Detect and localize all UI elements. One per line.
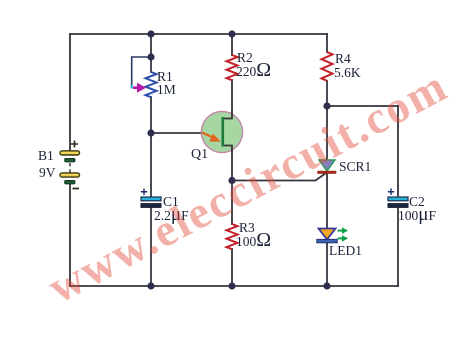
Q1 base2 lead [223,111,232,119]
SCR1 triangle [319,160,335,171]
wire left rail upper (battery +) [69,34,71,151]
svg-text:9V: 9V [39,165,56,180]
node bottom rail / C1 [147,282,154,289]
battery short plate 1 [65,159,75,162]
node R1 wiper tie [147,53,154,60]
C2 top plate [388,197,408,201]
battery long plate 2 [60,173,80,177]
resistor R1 (1M potentiometer body) [146,72,157,97]
wire LED cathode to bottom rail [326,243,328,287]
wire R4 to SCR anode [326,81,328,160]
SCR1 thyristor [317,160,336,174]
capacitor C2 100uF [388,189,408,208]
svg-text:R2: R2 [237,50,253,65]
node R1 / C1 / emitter [147,129,154,136]
LED1 triangle [319,229,336,240]
node bottom rail / R3 [228,282,235,289]
wire R1 column upper [150,34,152,72]
LED1 light arrow 1 [338,230,344,232]
svg-text:B1: B1 [38,148,54,163]
C2 plus sign [388,189,394,195]
wire R3 to bottom rail [231,249,233,286]
Q1 base1 lead [223,146,232,153]
node top rail / R1 [147,30,154,37]
LED1 [317,227,348,242]
resistor R2 220ohm [227,55,238,80]
wire Q1 base1 to gate node [231,146,233,181]
wire left rail lower (battery -) [69,184,71,286]
svg-text:www.eleccircuit.com: www.eleccircuit.com [40,60,454,313]
node top rail / R2 [228,30,235,37]
C2 bottom plate [388,204,408,208]
wire right rail to C2 [397,106,399,197]
capacitor C1 2.2uF [141,189,161,208]
C1 plus sign [141,189,147,195]
svg-text:1M: 1M [157,82,176,97]
svg-text:Q1: Q1 [191,147,208,162]
battery B1 [60,141,80,189]
node R4 / right branch [323,102,330,109]
potentiometer R1 wiper arrow [132,83,146,93]
SCR1 cathode bar [317,171,336,174]
battery short plate 2 [65,181,75,184]
wire R1 wiper loop [132,57,151,88]
wire top rail [70,33,327,35]
Q1 emitter arrow [202,133,213,138]
C1 top plate [141,197,161,201]
transistor Q1 (UJT) [201,111,242,153]
wire R1 to C1 [150,97,152,197]
svg-text:5.6K: 5.6K [334,65,361,80]
svg-text:R4: R4 [335,51,351,66]
wire Q1 emitter [151,132,202,134]
LED1 light arrow 2 [338,237,344,239]
wire bottom rail [70,285,398,287]
wire SCR cathode to LED anode [326,174,328,229]
battery plus sign [71,141,78,148]
node bottom rail / LED [323,282,330,289]
battery minus sign [73,188,80,190]
node gate / R3 [228,177,235,184]
Q1 body circle [201,111,242,152]
wire top right branch [327,105,398,107]
wire R2 to Q1 base2 [231,80,233,119]
resistor R3 100ohm [227,224,238,249]
svg-text:100μF: 100μF [398,204,436,225]
battery dashed link [69,163,71,173]
wire C1 to bottom rail [150,207,152,286]
LED1 cathode bar [317,239,337,242]
wire R4 column [326,34,328,52]
resistor R4 5.6K [322,52,333,81]
wire gate node to R3 [231,181,233,225]
wire SCR gate [232,174,325,181]
C1 bottom plate [141,204,161,208]
svg-text:LED1: LED1 [329,243,362,258]
wire C2 to bottom rail [397,207,399,286]
wire R2 column [231,34,233,55]
battery long plate 1 [60,151,80,155]
svg-text:R3: R3 [239,220,255,235]
Q1 base bar [222,117,225,147]
